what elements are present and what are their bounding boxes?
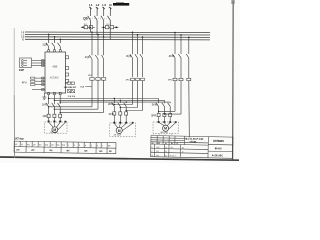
- wire L3 drop to bus: [103, 20, 105, 37]
- bottom page border: [0, 157, 239, 160]
- node branch2 tap3: [103, 36, 105, 38]
- bypass arm end nodes: [114, 104, 115, 105]
- wire cluster to branch2: [85, 86, 92, 88]
- svg-text:N: N: [109, 3, 111, 7]
- svg-text:L3: L3: [102, 3, 106, 7]
- motor3 PE diagonal: [167, 123, 175, 131]
- title block small text: [151, 143, 184, 158]
- svg-text:2M: 2M: [31, 150, 34, 152]
- terminal table row1 text: [15, 144, 111, 148]
- wire ctl 2: [35, 80, 45, 82]
- supply labels L1 L2 L3 N: [89, 3, 112, 7]
- svg-text:L2: L2: [96, 3, 100, 7]
- svg-text:1KA: 1KA: [80, 85, 85, 88]
- bus L2: [25, 33, 210, 36]
- fuses FU3: [173, 78, 191, 80]
- arm end nodes: [158, 111, 159, 112]
- node branch3 tap1: [132, 32, 134, 34]
- motor2 PE diagonal: [121, 123, 132, 131]
- svg-text:HL2-D-55-P-KW: HL2-D-55-P-KW: [185, 138, 204, 141]
- branch4 feeder wires: [175, 33, 189, 55]
- motor M1 circle: [52, 127, 58, 133]
- svg-text:dz: dz: [171, 147, 173, 149]
- bypass junction nodes on motor1: [48, 106, 49, 107]
- motor M2 circle: [116, 127, 122, 133]
- VFD right pin box 3: [66, 73, 69, 76]
- svg-text:2FU: 2FU: [126, 79, 131, 81]
- svg-text:rq: rq: [165, 155, 167, 157]
- node branch3 tap2: [137, 34, 139, 36]
- svg-text:30A 30B 30C: 30A 30B 30C: [64, 86, 77, 89]
- branch2 bypass arm 2: [54, 108, 98, 110]
- h-line tee nodes: [48, 98, 49, 99]
- svg-text:3FR: 3FR: [151, 113, 156, 117]
- svg-text:86-K5: 86-K5: [215, 147, 222, 150]
- svg-text:QS: QS: [83, 17, 88, 21]
- svg-text:3FU: 3FU: [168, 79, 173, 81]
- VFD input terminals: [48, 50, 62, 52]
- wire VFD feeder 2: [54, 37, 56, 43]
- svg-text:6M: 6M: [99, 151, 102, 153]
- motor3 entry terminals: [158, 121, 177, 123]
- SP wire terminals: [42, 60, 44, 67]
- motor2 entry terminals: [113, 122, 133, 124]
- title block main text: [184, 138, 224, 158]
- motor1 entry nodes: [48, 121, 67, 123]
- node branch4 tap1: [174, 32, 176, 34]
- svg-text:N: N: [22, 37, 24, 41]
- title block: [151, 136, 233, 159]
- contactor KM3: [156, 103, 170, 114]
- motor2 dashed box: [110, 123, 136, 136]
- VFD output terminals: [48, 92, 62, 94]
- svg-text:rq: rq: [165, 143, 167, 145]
- VFD right pin box 4: [66, 79, 69, 82]
- svg-text:A-201-BC: A-201-BC: [212, 154, 224, 157]
- svg-text:1XT dzp: 1XT dzp: [15, 138, 25, 141]
- wire ctl 4: [32, 89, 45, 91]
- overload FR3: [157, 113, 172, 121]
- bus L3: [25, 36, 210, 39]
- svg-text:gs: gs: [182, 147, 184, 149]
- motor1 lead-in wires: [49, 122, 61, 127]
- VFD output bus line 1: [48, 95, 50, 104]
- breaker QF2 blades: [89, 55, 103, 77]
- svg-text:M: M: [118, 129, 121, 133]
- motor1 dashed box: [45, 122, 68, 133]
- wire VFD feeder 1: [48, 34, 50, 43]
- node branch4 tap2: [180, 34, 182, 36]
- svg-text:VFD55: VFD55: [189, 141, 197, 143]
- contactor KM1: [46, 103, 60, 114]
- svg-text:1SP: 1SP: [19, 68, 24, 72]
- sheet title bold text bar: [113, 2, 129, 5]
- svg-text:1M: 1M: [16, 150, 19, 152]
- right page border: [231, 0, 235, 161]
- svg-text:ACS510: ACS510: [50, 77, 60, 80]
- control tap fuse line left: [81, 26, 95, 29]
- zone numbers above title block: [153, 134, 173, 136]
- branch2 bypass arm 3: [60, 111, 103, 113]
- motor2 column wires: [114, 99, 126, 104]
- svg-text:2FU: 2FU: [106, 24, 110, 26]
- ctl wire terminals: [42, 77, 44, 90]
- bus N: [25, 38, 210, 41]
- motor3 lead-in wires: [159, 122, 171, 125]
- VFD ground wire: [42, 93, 46, 99]
- fuses FU1: [90, 78, 106, 81]
- wire SP to VFD 2: [32, 62, 46, 64]
- wire ctl 1: [35, 77, 45, 79]
- node branch4 tap3: [188, 37, 190, 39]
- control input terminal 1: [31, 77, 35, 79]
- control tap fuse line right: [102, 26, 119, 29]
- branch3 bypass arm 1: [114, 104, 132, 106]
- wire SP to VFD 1: [32, 60, 46, 62]
- incoming supply arrows: [89, 7, 111, 14]
- svg-text:4M: 4M: [66, 149, 69, 152]
- breaker QF3 blades: [130, 54, 143, 77]
- branch4 bypass arm 1: [159, 110, 175, 112]
- svg-text:1FR: 1FR: [42, 114, 47, 118]
- svg-text:sh: sh: [151, 155, 153, 157]
- svg-text:4 3 2 1: 4 3 2 1: [170, 155, 176, 157]
- branch2 feeder wires: [92, 32, 104, 55]
- motor M3 circle: [163, 125, 169, 131]
- isolator switch QS 4-pole blades: [88, 14, 111, 21]
- node VFD tap 3: [60, 39, 62, 41]
- VFD U1 block: [45, 52, 66, 93]
- wire SP to VFD 3: [32, 64, 46, 66]
- control input terminal 3: [31, 83, 35, 85]
- branch3 drop wires: [133, 81, 143, 111]
- svg-text:1M 11kW: 1M 11kW: [50, 132, 58, 134]
- VFD output bus line 2: [53, 95, 55, 104]
- svg-text:M: M: [164, 127, 167, 131]
- branch2 bypass wires: [92, 80, 104, 112]
- relay contact squares: [68, 90, 75, 93]
- node branch2 tap2: [97, 34, 99, 36]
- contactor KM4 blades: [172, 54, 188, 78]
- svg-text:5M: 5M: [84, 151, 87, 153]
- svg-text:wxp: wxp: [156, 147, 159, 149]
- relay terminal cluster 30A 30B 30C: [65, 82, 75, 84]
- svg-text:1FU: 1FU: [88, 75, 93, 77]
- breaker QF1 blades: [46, 43, 60, 50]
- overload FR1: [47, 114, 62, 121]
- branch4 bypass arm 2: [164, 113, 181, 115]
- bus L1: [25, 31, 210, 34]
- overload FR2: [113, 112, 128, 123]
- svg-text:xh: xh: [152, 143, 154, 145]
- terminal table row2 text: [16, 149, 112, 154]
- fuses FU2: [131, 78, 145, 80]
- PE drop wire: [188, 81, 191, 138]
- wire L1 drop to bus: [89, 20, 91, 32]
- wire L2 drop to bus: [96, 20, 98, 34]
- bus labels: [21, 30, 24, 41]
- svg-text:L1: L1: [89, 3, 93, 7]
- terminal strip table: [14, 141, 116, 154]
- svg-text:bz: bz: [171, 143, 173, 145]
- wire ctl 3: [35, 83, 45, 85]
- svg-text:ABB: ABB: [52, 65, 57, 69]
- contactor KM2: [112, 103, 127, 112]
- branch3 bypass arm 3: [126, 110, 142, 112]
- svg-text:2M 11kW: 2M 11kW: [114, 135, 122, 137]
- svg-text:2KA 3KA: 2KA 3KA: [68, 95, 76, 98]
- node VFD tap 2: [54, 36, 56, 38]
- motor1 PE diagonal: [57, 122, 66, 131]
- svg-text:2KM: 2KM: [108, 102, 114, 106]
- svg-text:4KM: 4KM: [169, 54, 175, 58]
- node VFD tap 1: [48, 34, 50, 36]
- wire VFD feeder 3: [59, 39, 61, 43]
- junction control taps: [90, 27, 92, 29]
- motor2 column top nodes: [114, 98, 115, 99]
- svg-text:4FU: 4FU: [22, 81, 27, 85]
- node branch3 tap3: [142, 36, 144, 38]
- branch4 drop wires: [175, 81, 181, 114]
- control input terminal 2: [31, 80, 35, 82]
- svg-text:zyq: zyq: [156, 155, 159, 157]
- branch2 bypass arm 1: [49, 106, 92, 108]
- branch3 feeder wires: [133, 32, 143, 54]
- VFD right pin box 1: [66, 56, 69, 59]
- svg-text:DN9865: DN9865: [213, 139, 224, 143]
- node branch2 tap1: [91, 31, 93, 33]
- VFD right pin box 2: [66, 67, 69, 70]
- svg-text:tz: tz: [182, 150, 184, 153]
- VFD output bus line 3: [59, 95, 61, 104]
- pressure sensor box SP: [20, 58, 32, 67]
- svg-text:3M: 3M: [49, 150, 52, 152]
- left page border: [13, 28, 15, 158]
- branch3 bypass arm 2: [120, 107, 137, 109]
- wire N drop to bus: [109, 20, 111, 39]
- motor3 dashed box: [153, 122, 179, 133]
- svg-text:sjd: sjd: [157, 143, 160, 145]
- motor2 lead-in wires: [114, 123, 126, 128]
- svg-text:1FU: 1FU: [84, 24, 88, 26]
- svg-text:jg: jg: [164, 147, 166, 149]
